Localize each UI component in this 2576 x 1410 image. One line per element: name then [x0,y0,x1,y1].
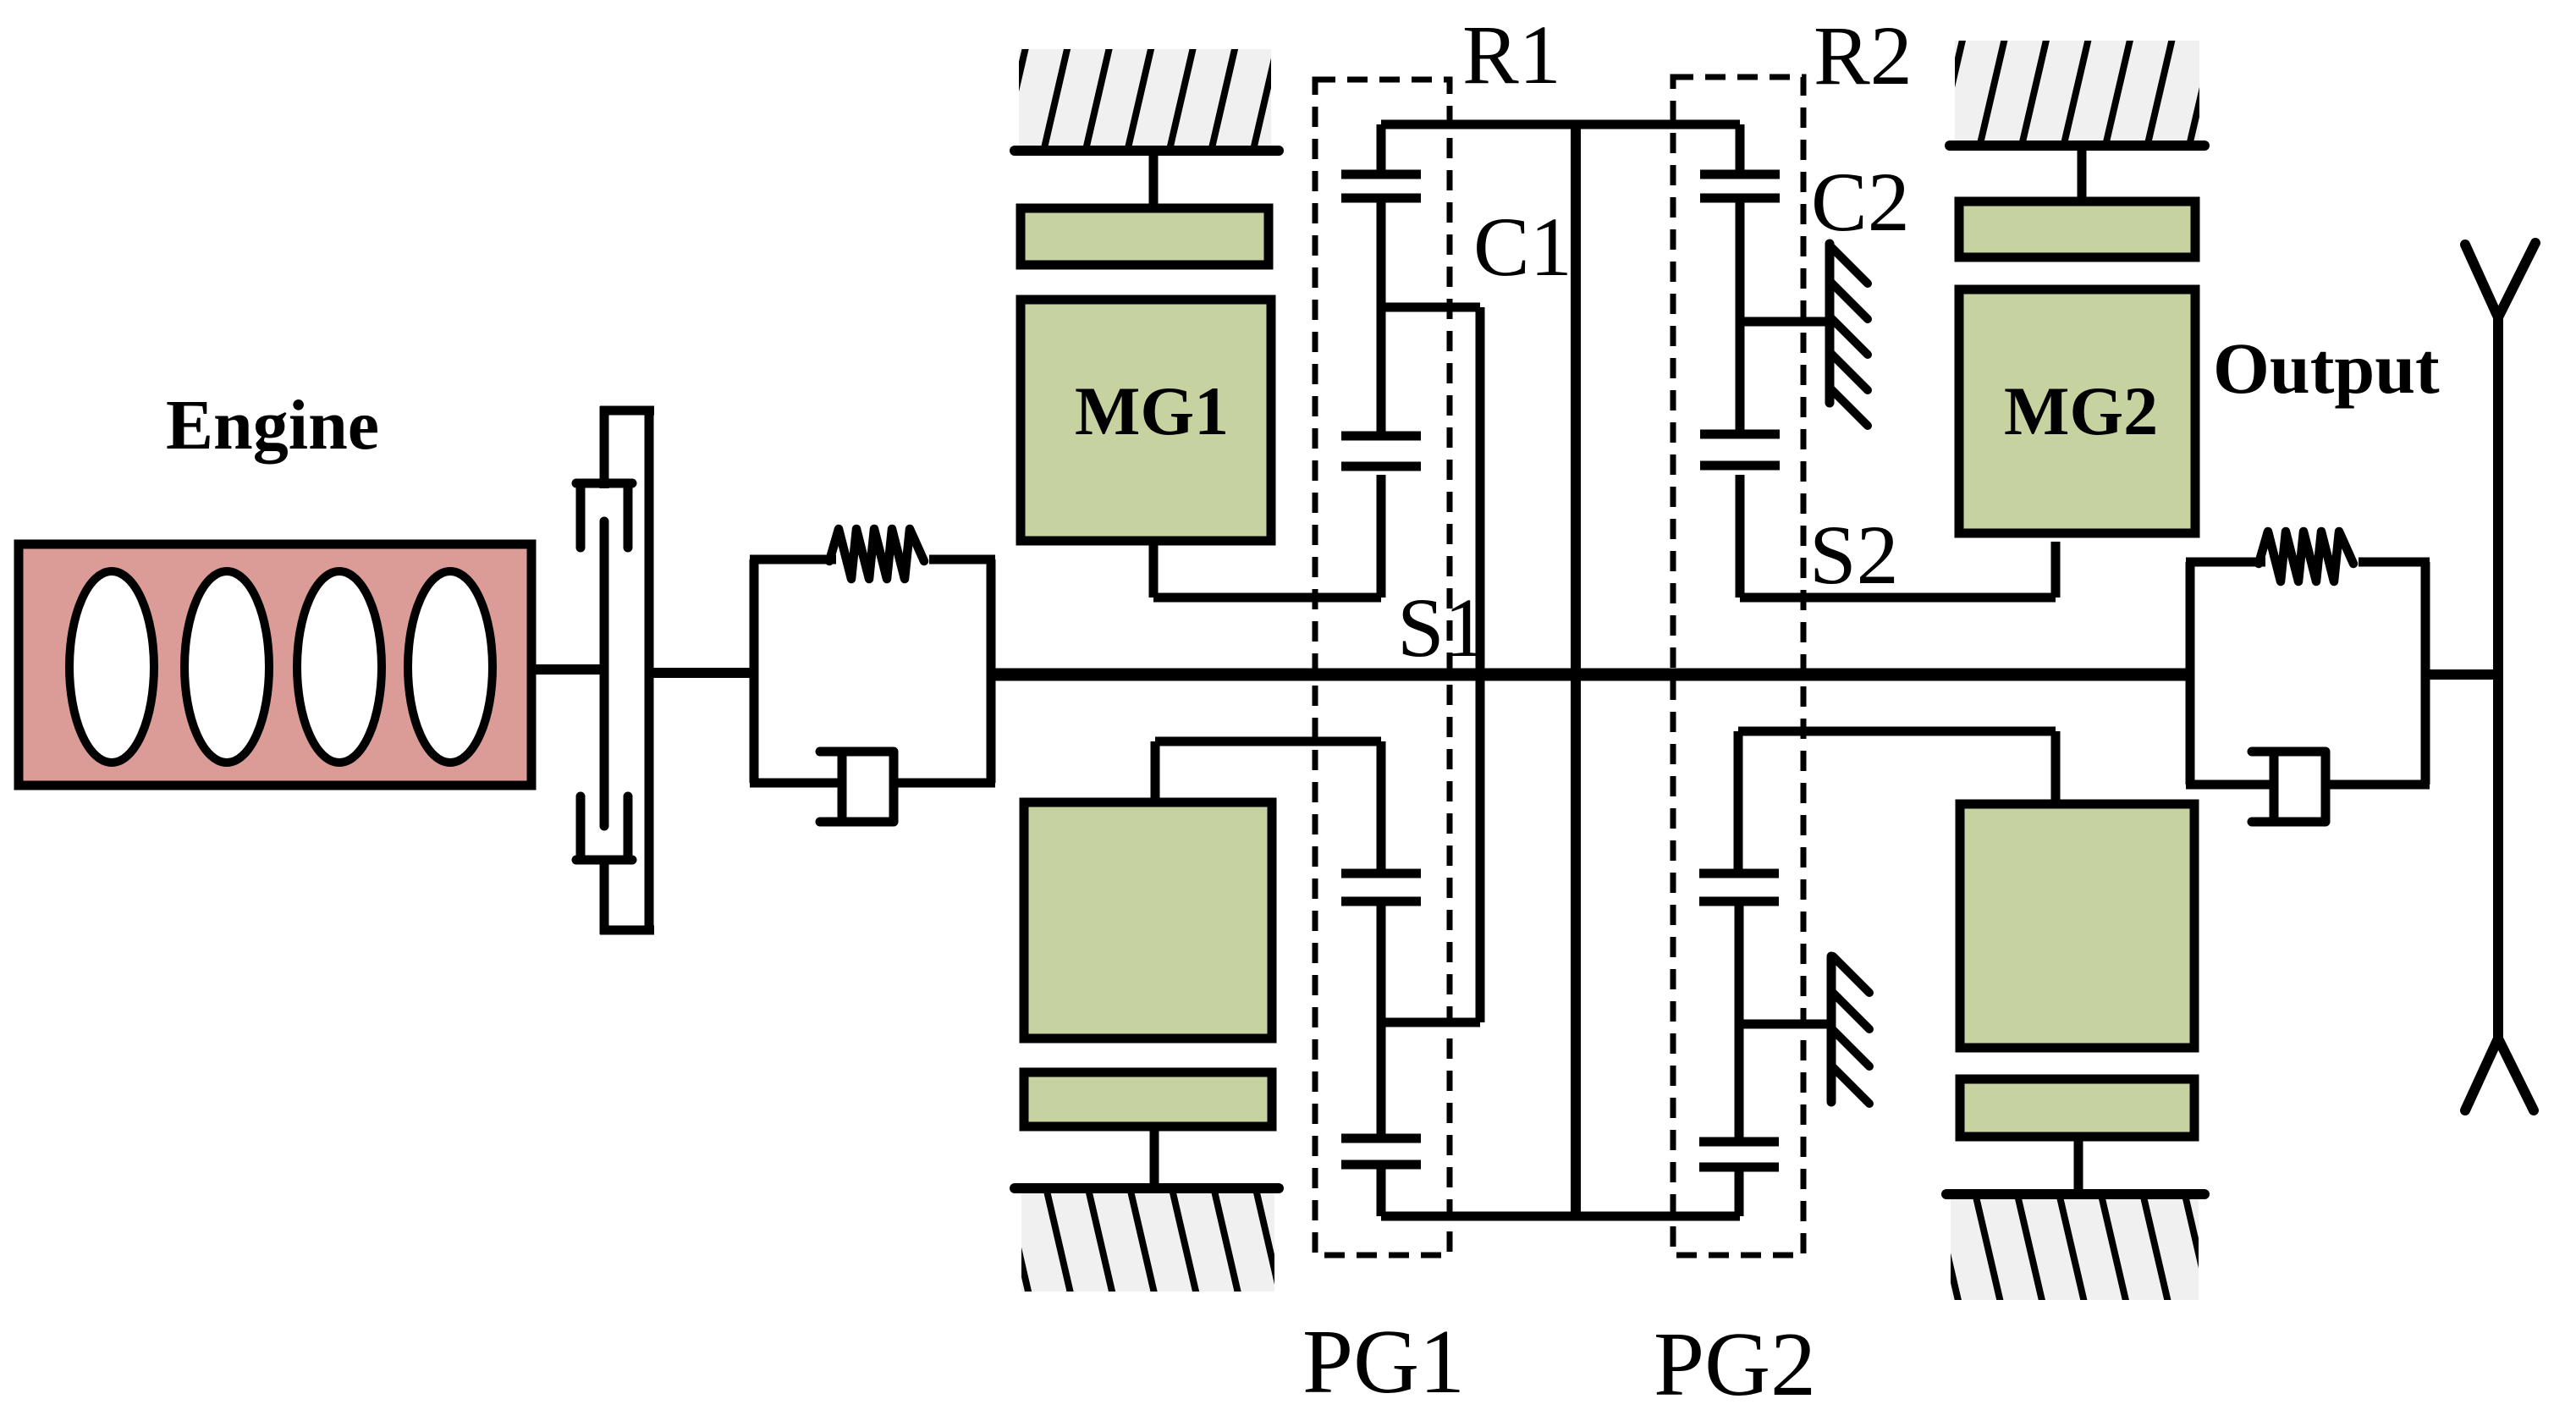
damper rod [600,521,609,826]
C2 label [1811,155,1910,249]
PG1 upper sun mesh [1341,307,1421,466]
planetary gear PG1 dashed box [1315,80,1450,1255]
svg-text:S1: S1 [1397,581,1487,675]
wall ground C2 lower [1831,956,1869,1104]
PG1 upper ring mesh [1341,124,1421,307]
svg-text:Engine: Engine [166,386,379,465]
MG2 stator [1959,201,2195,257]
ring rail top [1381,120,1740,129]
wire C1 vertical link [1476,307,1485,1022]
stem MG2 stator [2078,146,2087,201]
PG2 label [1654,1314,1816,1410]
ground line MG1 bottom [1015,1183,1279,1193]
R2 label [1814,8,1913,102]
svg-text:C2: C2 [1811,155,1910,249]
svg-text:MG2: MG2 [2004,372,2158,449]
svg-text:Output: Output [2213,328,2440,409]
PG2 upper ring mesh [1700,124,1780,322]
wire C1 lower [1381,1018,1480,1027]
PG1 label [1302,1312,1465,1410]
engine label [166,386,379,465]
spring of box 1 [829,529,924,579]
ground pad MG2 bottom [1934,1195,2253,1304]
wire C2 lower [1739,1020,1831,1029]
wire S1 (MG1 rotor to PG1 sun) [1153,475,1381,598]
damper of box 1 [820,752,894,822]
MG1 stator [1021,208,1269,265]
spring of box 2 [2259,532,2353,581]
MG2 label [2004,372,2158,449]
spring-damper box 2 frame [2186,562,2430,785]
MG2 lower stator [1960,1079,2194,1137]
wire spring-damper box 2 to output [2425,669,2498,680]
svg-text:R1: R1 [1462,8,1561,102]
PG2 lower planet mesh [1699,873,1779,1024]
ground pad MG1 top [1002,45,1319,150]
PG1 bottom ring mesh [1341,1022,1421,1216]
MG2 lower rotor [1960,804,2194,1048]
spring-damper box 1 frame [750,559,995,783]
svg-text:S2: S2 [1809,508,1899,602]
wire MG1 lower rotor to PG1 lower mesh [1155,741,1381,873]
PG1 lower planet mesh [1341,873,1421,1022]
ring rail center vertical [1571,124,1581,1216]
damper of box 2 [2252,752,2326,822]
ground line MG2 bottom [1946,1189,2204,1199]
output shaft vertical [2493,317,2503,1038]
wall ground C2 upper [1830,244,1868,426]
ground pad MG2 top [1938,36,2257,146]
wire engine to flywheel damper [531,664,608,675]
MG1 lower stator [1024,1072,1272,1126]
wire flywheel to spring-damper box 1 [652,668,754,678]
output fork top [2465,243,2535,317]
stem MG2 lower stator [2074,1137,2083,1194]
S2 label [1809,508,1899,602]
wire C2 upper [1740,317,1830,327]
R1 label [1462,8,1561,102]
main shaft [991,669,2190,681]
svg-text:MG1: MG1 [1075,372,1229,449]
svg-text:R2: R2 [1814,8,1913,102]
wire S2 (PG2 sun to MG2 rotor) [1740,475,2056,598]
MG1 lower rotor [1024,802,1272,1038]
PG2 upper sun mesh [1700,322,1780,465]
ground line MG1 top [1015,146,1279,156]
stem MG1 stator [1149,151,1159,208]
ring rail bottom [1381,1212,1740,1221]
wire PG2 lower mesh to MG2 lower rotor [1738,731,2056,873]
svg-text:PG1: PG1 [1302,1312,1465,1410]
MG1 label [1075,372,1229,449]
S1 label [1397,581,1487,675]
stem MG1 lower stator [1150,1126,1159,1185]
C1 label [1473,200,1572,294]
PG2 bottom ring mesh [1699,1024,1779,1216]
damper bracket lower [576,796,632,860]
output fork bottom [2465,1038,2534,1110]
Output label [2213,328,2440,409]
svg-text:C1: C1 [1473,200,1572,294]
svg-text:PG2: PG2 [1654,1314,1816,1410]
ground line MG2 top [1950,140,2204,151]
damper bracket upper [576,483,632,548]
planetary gear PG2 dashed box [1673,77,1803,1255]
engine block [19,544,531,785]
ground pad MG1 bottom [1005,1189,1323,1296]
MG2 rotor [1959,289,2195,533]
MG1 rotor [1021,300,1271,541]
wire C1 upper [1381,303,1480,312]
flywheel disc [600,406,654,934]
